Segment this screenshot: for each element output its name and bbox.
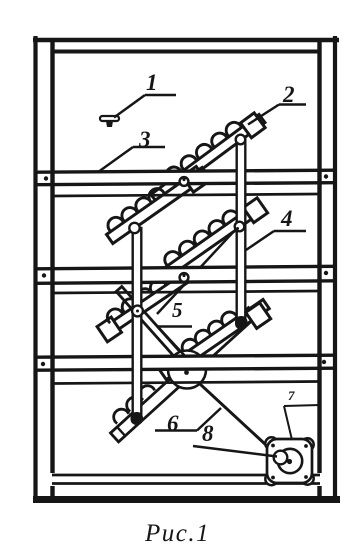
frame top rail	[33, 38, 339, 42]
frame left post outer	[33, 36, 37, 503]
left rod upper pivot	[129, 223, 139, 233]
left rod lower cap	[131, 412, 144, 425]
svg-text:1: 1	[146, 70, 158, 95]
crank arm (hub to upper-left)	[116, 287, 196, 375]
shelf rail (lower)	[37, 355, 335, 370]
right rod mid pivot	[235, 222, 245, 232]
rivet	[44, 176, 48, 180]
rivet	[324, 271, 328, 275]
rivet	[324, 174, 328, 178]
svg-text:8: 8	[202, 421, 214, 446]
frame bottom rail	[52, 474, 320, 477]
label 1 leader	[145, 94, 176, 97]
link bar	[157, 229, 236, 314]
tray (level3 left)	[94, 259, 200, 342]
rivet	[42, 273, 46, 277]
label 5 leader	[158, 325, 193, 328]
label 2 leader	[279, 103, 306, 106]
hub pivot dot	[184, 370, 189, 375]
tray 5 (level3 right)	[154, 291, 274, 387]
left rod mid pivot	[132, 306, 143, 317]
rivet	[322, 360, 326, 364]
shelf rail (upper)	[37, 170, 335, 185]
chute end cap	[116, 426, 126, 437]
frame left post inner lower	[50, 486, 54, 499]
left rod	[133, 228, 142, 416]
label 6 leader	[155, 429, 197, 432]
frame bottom rail lower	[52, 482, 320, 485]
svg-text:5: 5	[172, 298, 183, 322]
crank arm (hub to motor)	[187, 372, 279, 457]
pivot on rail	[180, 177, 189, 186]
crank arm / discharge chute	[110, 308, 256, 442]
right rod lower cap	[235, 316, 248, 330]
motor M	[265, 437, 277, 449]
right rod	[237, 140, 246, 318]
frame right post outer	[333, 36, 337, 503]
tray (level2 left)	[101, 159, 211, 247]
label 4 leader	[274, 230, 306, 233]
pivot on rail	[180, 273, 189, 282]
svg-text:2: 2	[282, 82, 295, 107]
crank hub	[168, 351, 206, 389]
svg-text:Рис.1: Рис.1	[144, 520, 210, 547]
frame left post inner	[50, 40, 54, 473]
right rod upper pivot	[236, 135, 246, 145]
rivet	[41, 362, 45, 366]
svg-text:3: 3	[138, 127, 151, 152]
shelf rail (middle)	[37, 266, 335, 283]
feeder knob 1	[100, 116, 119, 121]
tray 2 (top)	[145, 106, 267, 205]
svg-text:7: 7	[288, 388, 295, 403]
frame right post inner lower	[317, 486, 321, 499]
label 8 leader	[193, 446, 277, 457]
frame right post inner	[317, 40, 321, 473]
svg-text:4: 4	[280, 206, 293, 231]
label 3 leader	[133, 146, 165, 149]
svg-text:6: 6	[167, 411, 179, 436]
tray 4 (level2 right)	[154, 193, 267, 283]
frame bottom edge	[33, 496, 340, 503]
frame top rail inner	[52, 50, 321, 54]
chute bumps	[111, 406, 129, 424]
label 7 leader	[284, 405, 320, 406]
